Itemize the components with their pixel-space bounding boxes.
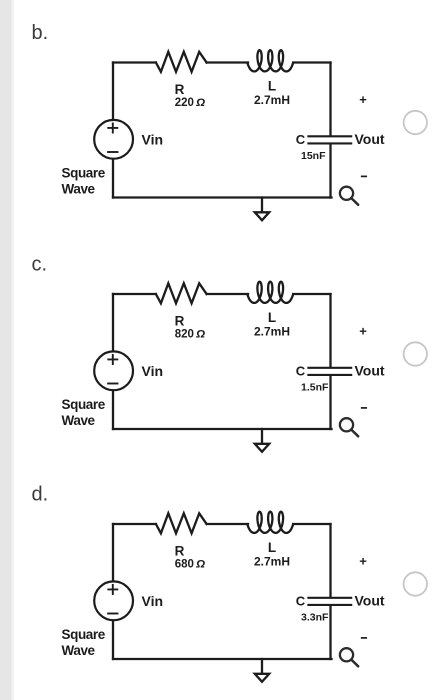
svg-text:Vin: Vin — [142, 132, 164, 148]
svg-text:Square: Square — [62, 397, 106, 412]
magnifier zoom icon — [340, 187, 358, 205]
wire: left side upper (node A down to source) — [112, 294, 114, 351]
svg-text:C: C — [296, 132, 306, 147]
circuit d: series RLC low-pass, source Vin to R 680, L 2.7mH, C 3.3nF to Vout — [32, 484, 427, 682]
svg-text:2.7mH: 2.7mH — [254, 325, 290, 339]
svg-text:Wave: Wave — [62, 643, 96, 658]
capacitor C bottom plate — [308, 374, 351, 376]
wire: top-left (node A to resistor) — [113, 293, 156, 295]
ground stub wire — [261, 198, 263, 212]
svg-text:d.: d. — [32, 484, 49, 506]
wire: top-left (node A to resistor) — [113, 523, 156, 525]
svg-text:C: C — [296, 594, 306, 609]
polarity - (Vout) — [362, 175, 367, 177]
svg-text:Vout: Vout — [355, 593, 385, 609]
svg-text:+: + — [359, 92, 367, 107]
wire: right side lower (capacitor to bottom-right corner) — [329, 376, 331, 429]
svg-text:Wave: Wave — [62, 413, 96, 428]
wire: top-left (node A to resistor) — [113, 61, 156, 63]
wire: left side lower (source to bottom rail) — [112, 620, 114, 659]
wire: inductor to top-right corner — [293, 61, 330, 63]
wire: left side lower (source to bottom rail) — [112, 159, 114, 198]
source - terminal mark — [108, 151, 117, 153]
svg-text:Square: Square — [62, 627, 106, 642]
svg-text:1.5nF: 1.5nF — [301, 381, 329, 393]
magnifier zoom icon — [340, 648, 358, 666]
ground symbol — [255, 674, 269, 682]
resistor R — [156, 283, 207, 303]
source + terminal mark — [108, 123, 117, 132]
wire: right side upper (corner down to capacitor) — [329, 294, 331, 367]
ground symbol — [255, 212, 269, 220]
ground stub wire — [261, 429, 263, 443]
source - terminal mark — [108, 383, 117, 385]
radio button option — [404, 572, 427, 595]
svg-text:Vout: Vout — [355, 131, 385, 147]
circuit c: series RLC low-pass, source Vin to R 820, L 2.7mH, C 1.5nF to Vout — [32, 254, 427, 452]
radio button option — [404, 342, 427, 365]
wire: left side lower (source to bottom rail) — [112, 390, 114, 429]
source + terminal mark — [108, 355, 117, 364]
capacitor C top plate — [308, 135, 351, 137]
svg-text:15nF: 15nF — [301, 150, 326, 162]
capacitor C top plate — [308, 367, 351, 369]
wire: left side upper (node A down to source) — [112, 63, 114, 120]
svg-text:R: R — [175, 82, 185, 97]
circuit b: series RLC low-pass, source Vin to R 220, L 2.7mH, C 15nF to Vout — [32, 22, 427, 220]
voltage source Vin circle — [94, 120, 133, 159]
wire: bottom rail — [113, 428, 332, 430]
svg-text:+: + — [359, 554, 367, 569]
svg-text:Vin: Vin — [142, 593, 164, 609]
svg-text:820 Ω: 820 Ω — [175, 329, 205, 341]
wire: resistor to inductor — [207, 293, 248, 295]
wire: inductor to top-right corner — [293, 523, 330, 525]
svg-text:2.7mH: 2.7mH — [254, 93, 290, 107]
wire: resistor to inductor — [207, 523, 248, 525]
wire: right side lower (capacitor to bottom-right corner) — [329, 606, 331, 659]
inductor L — [247, 282, 293, 303]
wire: right side upper (corner down to capacitor) — [329, 63, 331, 136]
svg-text:3.3nF: 3.3nF — [301, 611, 329, 623]
svg-text:680 Ω: 680 Ω — [175, 559, 205, 571]
svg-text:L: L — [268, 540, 276, 555]
capacitor C bottom plate — [308, 604, 351, 606]
svg-text:C: C — [296, 364, 306, 379]
wire: bottom rail — [113, 196, 332, 198]
capacitor C top plate — [308, 597, 351, 599]
svg-text:220 Ω: 220 Ω — [175, 97, 205, 109]
capacitor C bottom plate — [308, 142, 351, 144]
svg-text:c.: c. — [32, 254, 48, 276]
svg-text:R: R — [175, 544, 185, 559]
wire: inductor to top-right corner — [293, 293, 330, 295]
resistor R — [156, 52, 207, 72]
voltage source Vin circle — [94, 351, 133, 390]
svg-text:2.7mH: 2.7mH — [254, 555, 290, 569]
svg-text:R: R — [175, 314, 185, 329]
inductor L — [247, 50, 293, 71]
polarity - (Vout) — [362, 637, 367, 639]
source + terminal mark — [108, 585, 117, 594]
svg-text:Wave: Wave — [62, 182, 96, 197]
svg-text:Vout: Vout — [355, 363, 385, 379]
polarity - (Vout) — [362, 407, 367, 409]
svg-text:Vin: Vin — [142, 363, 164, 379]
inductor L — [247, 512, 293, 533]
wire: right side lower (capacitor to bottom-right corner) — [329, 144, 331, 197]
voltage source Vin circle — [94, 581, 133, 620]
ground symbol — [255, 444, 269, 452]
source - terminal mark — [108, 613, 117, 615]
svg-text:L: L — [268, 79, 276, 94]
svg-text:b.: b. — [32, 22, 49, 44]
svg-text:Square: Square — [62, 166, 106, 181]
magnifier zoom icon — [340, 418, 358, 436]
wire: bottom rail — [113, 658, 332, 660]
resistor R — [156, 513, 207, 533]
wire: left side upper (node A down to source) — [112, 524, 114, 581]
radio button option — [404, 111, 427, 134]
wire: right side upper (corner down to capacitor) — [329, 524, 331, 597]
ground stub wire — [261, 659, 263, 673]
svg-text:L: L — [268, 310, 276, 325]
wire: resistor to inductor — [207, 61, 248, 63]
svg-text:+: + — [359, 324, 367, 339]
